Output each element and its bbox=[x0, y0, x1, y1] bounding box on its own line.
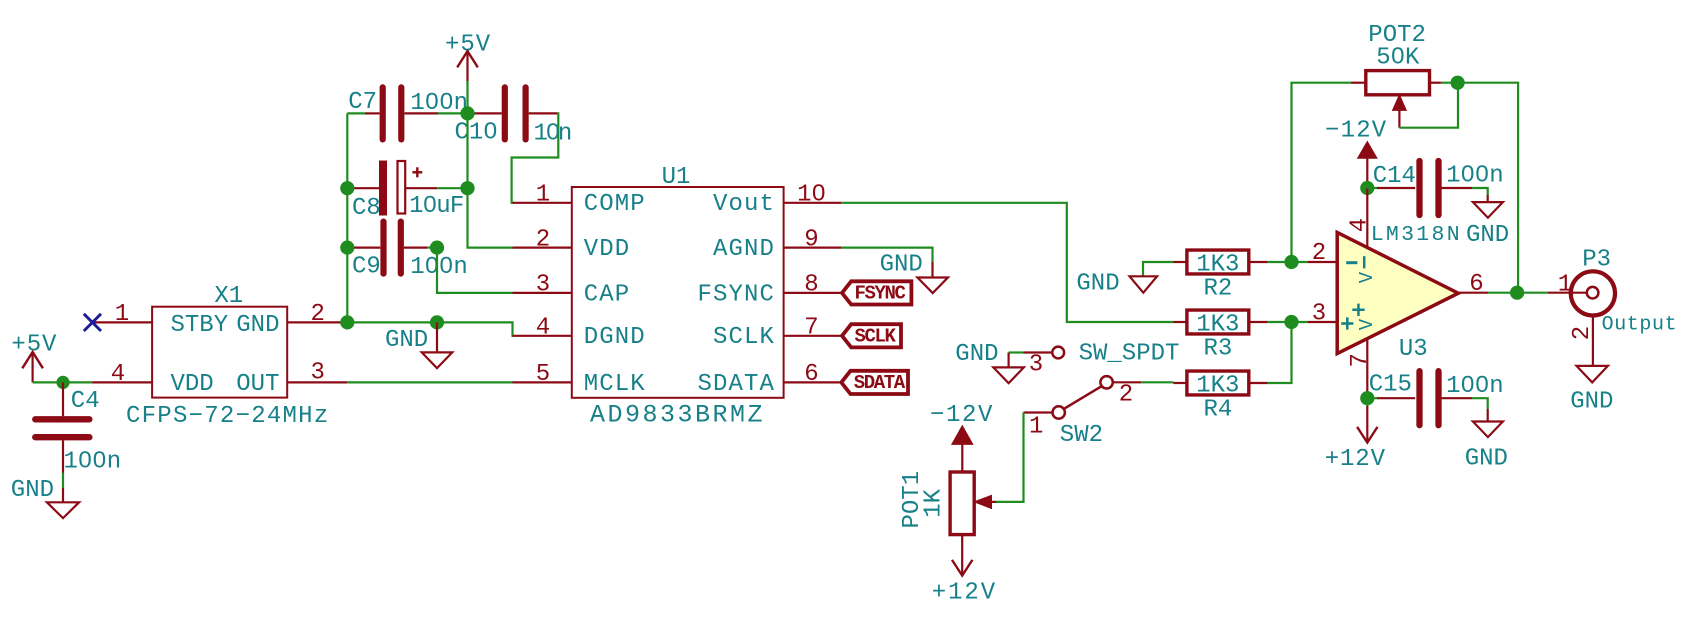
svg-text:X1: X1 bbox=[214, 283, 243, 310]
svg-text:−12V: −12V bbox=[1325, 118, 1387, 145]
svg-text:GND: GND bbox=[385, 327, 428, 354]
svg-text:AGND: AGND bbox=[713, 236, 775, 263]
svg-text:4: 4 bbox=[111, 361, 125, 388]
svg-text:9: 9 bbox=[804, 226, 818, 253]
svg-text:SW2: SW2 bbox=[1060, 422, 1103, 449]
svg-text:GND: GND bbox=[1570, 389, 1613, 416]
svg-text:VDD: VDD bbox=[584, 236, 631, 263]
svg-text:P3: P3 bbox=[1582, 247, 1611, 274]
svg-text:GND: GND bbox=[1076, 271, 1119, 298]
svg-text:−12V: −12V bbox=[930, 402, 994, 429]
svg-text:GND: GND bbox=[11, 477, 54, 504]
svg-text:10: 10 bbox=[797, 182, 826, 209]
svg-text:1K3: 1K3 bbox=[1196, 373, 1239, 400]
svg-text:U3: U3 bbox=[1399, 336, 1428, 363]
svg-text:+12V: +12V bbox=[1325, 446, 1386, 473]
svg-text:C15: C15 bbox=[1369, 372, 1412, 399]
svg-text:VDD: VDD bbox=[171, 371, 214, 398]
svg-text:3: 3 bbox=[310, 359, 324, 386]
svg-text:1: 1 bbox=[115, 301, 129, 328]
svg-text:100n: 100n bbox=[1446, 163, 1504, 190]
svg-text:5: 5 bbox=[536, 361, 550, 388]
svg-text:FSYNC: FSYNC bbox=[697, 281, 775, 308]
svg-text:3: 3 bbox=[1029, 352, 1043, 379]
svg-text:CAP: CAP bbox=[584, 281, 631, 308]
svg-text:SDATA: SDATA bbox=[854, 372, 906, 394]
svg-text:100n: 100n bbox=[410, 254, 468, 281]
svg-text:Vout: Vout bbox=[713, 191, 775, 218]
svg-text:GND: GND bbox=[236, 312, 279, 339]
svg-text:2: 2 bbox=[1119, 382, 1133, 409]
svg-text:SDATA: SDATA bbox=[697, 371, 775, 398]
svg-text:STBY: STBY bbox=[171, 312, 229, 339]
svg-text:2: 2 bbox=[1312, 240, 1326, 267]
svg-text:3: 3 bbox=[1312, 300, 1326, 327]
svg-text:AD9833BRMZ: AD9833BRMZ bbox=[590, 401, 765, 430]
svg-text:MCLK: MCLK bbox=[584, 371, 646, 398]
svg-text:1: 1 bbox=[1029, 414, 1043, 441]
svg-text:DGND: DGND bbox=[584, 324, 646, 351]
svg-text:OUT: OUT bbox=[236, 371, 279, 398]
svg-text:1: 1 bbox=[536, 182, 550, 209]
svg-text:FSYNC: FSYNC bbox=[855, 283, 906, 305]
svg-text:1: 1 bbox=[1558, 272, 1572, 299]
svg-text:R3: R3 bbox=[1203, 336, 1232, 363]
svg-text:C8: C8 bbox=[352, 195, 381, 222]
svg-text:2: 2 bbox=[1569, 326, 1596, 340]
svg-text:C9: C9 bbox=[352, 253, 381, 280]
svg-text:1K: 1K bbox=[921, 488, 948, 517]
svg-text:100n: 100n bbox=[410, 90, 468, 117]
svg-text:Output: Output bbox=[1602, 314, 1678, 337]
svg-text:C7: C7 bbox=[348, 89, 377, 116]
svg-text:C14: C14 bbox=[1373, 163, 1416, 190]
svg-text:V: V bbox=[1356, 318, 1378, 330]
svg-text:6: 6 bbox=[1469, 271, 1483, 298]
svg-text:SCLK: SCLK bbox=[713, 324, 775, 351]
svg-text:GND: GND bbox=[880, 251, 923, 278]
svg-text:R4: R4 bbox=[1203, 397, 1232, 424]
svg-text:10uF: 10uF bbox=[409, 193, 463, 220]
svg-text:7: 7 bbox=[1347, 353, 1374, 367]
svg-text:R2: R2 bbox=[1203, 276, 1232, 303]
svg-text:C4: C4 bbox=[71, 388, 100, 415]
svg-text:2: 2 bbox=[536, 226, 550, 253]
svg-text:+12V: +12V bbox=[932, 580, 997, 607]
svg-text:SW_SPDT: SW_SPDT bbox=[1079, 341, 1180, 368]
svg-text:100n: 100n bbox=[64, 448, 122, 475]
svg-text:SCLK: SCLK bbox=[855, 326, 897, 348]
svg-text:CFPS−72−24MHz: CFPS−72−24MHz bbox=[126, 403, 329, 430]
svg-text:U1: U1 bbox=[662, 164, 691, 191]
svg-text:1K3: 1K3 bbox=[1196, 312, 1239, 339]
svg-text:GND: GND bbox=[1465, 445, 1508, 472]
svg-text:3: 3 bbox=[536, 272, 550, 299]
svg-text:GND: GND bbox=[1466, 222, 1509, 249]
svg-text:COMP: COMP bbox=[584, 191, 646, 218]
svg-text:100n: 100n bbox=[1446, 373, 1504, 400]
svg-text:4: 4 bbox=[536, 315, 550, 342]
svg-text:7: 7 bbox=[804, 315, 818, 342]
svg-text:4: 4 bbox=[1346, 218, 1373, 232]
svg-text:V: V bbox=[1356, 271, 1378, 283]
svg-text:LM318N: LM318N bbox=[1371, 223, 1462, 247]
svg-text:2: 2 bbox=[310, 301, 324, 328]
svg-text:GND: GND bbox=[955, 341, 998, 368]
svg-text:8: 8 bbox=[804, 272, 818, 299]
svg-text:1K3: 1K3 bbox=[1196, 252, 1239, 279]
svg-text:6: 6 bbox=[804, 361, 818, 388]
